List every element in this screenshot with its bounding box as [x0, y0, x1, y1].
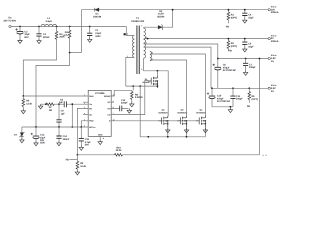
- label Q3: [177, 108, 187, 114]
- svg-text:220nF: 220nF: [63, 138, 70, 141]
- label C10 value: [217, 95, 231, 104]
- label C12 value: [40, 134, 46, 145]
- wire VIN bypass jumper: [71, 104, 73, 127]
- svg-text:4V POSCAP: 4V POSCAP: [223, 69, 237, 72]
- node VIN input terminal: [9, 25, 11, 27]
- node junction C11 top: [232, 87, 234, 89]
- svg-text:PGD: PGD: [89, 120, 94, 123]
- wire secondary tap VOUT4: [144, 47, 211, 88]
- wire snubber left vertical: [80, 10, 82, 53]
- node junction C7 top: [245, 58, 247, 60]
- capacitor C6: [213, 59, 222, 89]
- ground Q2: [166, 128, 170, 133]
- ground C13: [127, 108, 131, 113]
- label T1 pin numbers: [127, 25, 153, 72]
- node junction R1 top: [228, 9, 230, 11]
- wire C10 C11 ground tie: [212, 106, 233, 108]
- label R7 value: [49, 106, 53, 112]
- label C4 value: [248, 14, 254, 20]
- ground C14: [57, 141, 61, 146]
- node primary polarity dot: [124, 33, 126, 35]
- wire Q2 source: [167, 128, 169, 137]
- label C15 value: [85, 138, 92, 147]
- svg-text:B0540W: B0540W: [142, 81, 149, 84]
- node FB stub label: [66, 158, 78, 161]
- svg-text:5: 5: [84, 118, 85, 121]
- capacitor C14: [56, 127, 61, 141]
- ground VIN filter: [38, 104, 42, 109]
- wire VOUT4 rail: [211, 87, 268, 89]
- label rail end marks: [262, 154, 267, 156]
- label C1 value: [95, 29, 102, 38]
- capacitor C15: [79, 127, 84, 146]
- transistor Q4: [196, 116, 206, 128]
- node junction ground tie: [230, 106, 232, 108]
- svg-text:50V: 50V: [85, 144, 90, 147]
- wire primary bottom lead: [126, 58, 135, 87]
- svg-text:4: 4: [84, 112, 85, 115]
- svg-text:12.4k: 12.4k: [80, 165, 86, 168]
- ground C1: [88, 38, 92, 43]
- svg-text:1µF: 1µF: [61, 112, 66, 115]
- svg-text:LTC3806: LTC3806: [95, 92, 105, 95]
- svg-text:PA0810-002: PA0810-002: [131, 20, 144, 23]
- wire Q1 drain stub: [156, 71, 158, 76]
- label C11 value: [236, 95, 243, 101]
- svg-text:220nF: 220nF: [43, 36, 50, 39]
- svg-text:4.7k: 4.7k: [63, 34, 68, 37]
- svg-text:X5R: X5R: [40, 142, 45, 145]
- node junction Q1 drain tap: [157, 70, 159, 72]
- wire sources riser: [139, 86, 141, 137]
- ground C3: [37, 39, 41, 44]
- svg-text:RUN: RUN: [89, 95, 94, 98]
- label D1: [93, 13, 102, 19]
- diode D1: [95, 8, 99, 12]
- node junction INTVCC C14: [58, 126, 60, 128]
- svg-text:Si7850DN: Si7850DN: [177, 111, 187, 114]
- wire secondary tap VOUT3: [144, 44, 218, 59]
- ground C7: [243, 71, 247, 76]
- capacitor C13 series: [120, 106, 122, 112]
- wire VOUT3 rail: [218, 58, 268, 60]
- ground C5: [243, 47, 247, 52]
- resistor R1: [227, 10, 230, 24]
- svg-text:1N4148: 1N4148: [93, 16, 102, 19]
- wire sources bottom rail: [140, 136, 205, 138]
- wire top clamp rail: [81, 9, 268, 11]
- wire R4 node to INTVCC rail: [36, 53, 70, 127]
- node junction C9 top: [58, 103, 60, 105]
- label R9 value: [80, 162, 86, 168]
- wire VIN rail: [11, 26, 126, 28]
- node junction R2 top: [228, 38, 230, 40]
- ground C12: [34, 141, 38, 146]
- label VOUT2: [271, 34, 279, 43]
- svg-text:100V: 100V: [95, 35, 101, 38]
- transistor Q1 main switch: [148, 76, 158, 88]
- transformer T1 secondary winding 2: [150, 51, 152, 61]
- svg-text:9: 9: [113, 100, 114, 103]
- capacitor C9: [56, 104, 61, 127]
- ground Q4: [203, 128, 207, 133]
- svg-text:FB: FB: [247, 105, 250, 108]
- label U1 right pin names: [104, 95, 111, 123]
- wire secondary tap VOUT2: [144, 38, 269, 40]
- label VOUT3: [271, 54, 277, 63]
- wire Q1 source to sense node: [156, 86, 158, 88]
- node junction R7 left: [45, 103, 47, 105]
- svg-text:3.3µH: 3.3µH: [46, 20, 53, 23]
- node VOUT2 terminal: [268, 38, 270, 40]
- node junction R3: [56, 26, 58, 28]
- svg-text:25V TO 60V: 25V TO 60V: [3, 20, 16, 23]
- capacitor C10: [207, 88, 216, 107]
- svg-text:0.025Ω: 0.025Ω: [135, 96, 143, 99]
- capacitor C3: [36, 27, 41, 39]
- node junction R4: [69, 26, 71, 28]
- label C14 value: [63, 135, 70, 141]
- svg-text:10µF: 10µF: [248, 16, 254, 19]
- wire RUN rail: [23, 95, 88, 97]
- node junction C4 top: [244, 9, 246, 11]
- label T1: [131, 17, 144, 23]
- label C9 value: [61, 110, 66, 116]
- label Q4: [196, 108, 206, 114]
- ground C4: [243, 18, 247, 23]
- svg-text:FB: FB: [66, 158, 69, 161]
- label C5 value: [248, 43, 254, 49]
- node VOUT4 terminal: [268, 87, 270, 89]
- wire U1 PGD pin to INTVCC rail: [81, 121, 88, 127]
- IC U1 LTC3806 box: [88, 90, 111, 136]
- node junction INTVCC R4: [35, 126, 37, 128]
- svg-text:20.0k: 20.0k: [116, 149, 122, 152]
- node junction jumper top: [71, 103, 73, 105]
- label U1 pin numbers: [84, 94, 114, 141]
- svg-text:BZ504: BZ504: [157, 16, 165, 19]
- svg-text:400mA: 400mA: [271, 11, 279, 14]
- resistor R2: [227, 39, 230, 51]
- resistor R6: [248, 88, 251, 103]
- label R5 value: [26, 100, 32, 106]
- svg-text:10µF: 10µF: [248, 45, 254, 48]
- wire VIN filter rail: [43, 103, 89, 105]
- label L1 value: [46, 17, 53, 23]
- wire FB pin to divider: [77, 108, 88, 154]
- node junction source rail a: [147, 136, 149, 138]
- svg-text:4: 4: [141, 68, 142, 71]
- resistor R4: [68, 27, 71, 53]
- wire G gate rail: [111, 120, 199, 122]
- label C8 value: [59, 98, 64, 104]
- label R10 value: [116, 146, 122, 152]
- node junction source rail c: [186, 136, 188, 138]
- capacitor C5: [242, 39, 247, 48]
- resistor R3: [55, 27, 58, 42]
- svg-text:FB: FB: [229, 50, 232, 53]
- label VOUT4: [271, 84, 277, 93]
- node junction C1: [89, 26, 91, 28]
- svg-text:Si7850DN: Si7850DN: [158, 111, 168, 114]
- ground D5: [20, 138, 24, 143]
- label C7 value: [249, 63, 256, 69]
- node junction jumper bottom: [71, 126, 73, 128]
- svg-text:4V POSCAP: 4V POSCAP: [217, 100, 231, 103]
- capacitor C7: [243, 59, 248, 71]
- label R3 value: [59, 33, 65, 39]
- label C3 value: [43, 33, 50, 39]
- capacitor C8 series: [64, 101, 66, 107]
- node junction C10 top: [211, 87, 213, 89]
- resistor R5: [22, 96, 25, 109]
- inductor L1: [41, 24, 57, 26]
- wire VOUT3 sense riser: [259, 59, 261, 155]
- wire FB bottom rail: [77, 154, 259, 156]
- ground R9: [75, 170, 79, 175]
- label R8 value: [135, 93, 143, 99]
- node junction R6 top: [248, 87, 250, 89]
- node junction VOUT3 riser: [259, 58, 261, 60]
- label VOUT1: [271, 5, 279, 14]
- ground C11 tie: [228, 108, 232, 113]
- node junction R4 bottom: [69, 52, 71, 54]
- svg-text:1M: 1M: [49, 109, 52, 112]
- node VOUT3 terminal: [268, 57, 270, 59]
- ground C2: [18, 39, 22, 44]
- svg-text:Si7850DN: Si7850DN: [196, 111, 206, 114]
- ground C15: [79, 146, 83, 151]
- wire INTVCC rail: [22, 126, 88, 128]
- svg-text:100µF: 100µF: [249, 66, 256, 69]
- svg-text:FB: FB: [226, 25, 229, 28]
- node junction sources riser: [139, 85, 141, 87]
- resistor R9: [76, 155, 79, 170]
- label R4 value: [63, 31, 68, 37]
- svg-text:CG: CG: [107, 114, 110, 117]
- label U1 left pin names: [89, 95, 96, 129]
- svg-text:2A: 2A: [271, 90, 274, 93]
- capacitor C1 snubber: [87, 27, 92, 38]
- label Q1 D4: [142, 78, 149, 84]
- resistor R8 sense: [111, 90, 133, 102]
- diode D5: [19, 127, 25, 138]
- ground R5: [21, 109, 25, 114]
- ground R8: [130, 102, 134, 107]
- node junction Q1 source: [157, 85, 159, 87]
- capacitor C4: [242, 10, 247, 19]
- wire R3 node down to RUN: [23, 41, 56, 96]
- svg-text:7: 7: [141, 25, 142, 28]
- node VOUT1 terminal: [268, 9, 270, 11]
- label R1: [231, 14, 238, 20]
- svg-text:10: 10: [113, 94, 115, 97]
- svg-text:GND: GND: [98, 134, 103, 137]
- svg-text:80V: 80V: [24, 36, 29, 39]
- svg-text:330pF: 330pF: [121, 102, 128, 105]
- svg-text:400mA: 400mA: [271, 40, 279, 43]
- label R2: [231, 42, 238, 48]
- label C13 value: [121, 99, 128, 105]
- svg-text:(OPT): (OPT): [231, 16, 238, 19]
- node junction RUN divider: [22, 95, 24, 97]
- svg-text:SENSE: SENSE: [104, 95, 111, 98]
- wire snubber bottom: [70, 52, 82, 54]
- transformer T1 core: [137, 26, 139, 75]
- wire ITH pin network: [111, 107, 128, 109]
- svg-text:11: 11: [103, 137, 105, 140]
- transformer T1 primary winding: [133, 36, 135, 58]
- wire secondary1 bottom to Q2 drain: [144, 58, 169, 116]
- resistor R10: [115, 154, 123, 157]
- node junction FB divider: [77, 154, 79, 156]
- zener D2: [144, 10, 173, 30]
- transistor Q2: [158, 116, 168, 128]
- label R6: [252, 95, 259, 101]
- svg-text:(OPT): (OPT): [231, 45, 238, 48]
- label C6 value: [223, 64, 237, 73]
- wire secondary2 top tap to Q4 drain: [150, 54, 206, 116]
- wire secondary2 bottom tap to Q3 drain: [150, 60, 187, 116]
- transformer T1 secondary winding 1: [144, 28, 146, 58]
- svg-text:1A: 1A: [271, 60, 274, 63]
- wire R8 stub: [132, 86, 134, 90]
- node junction source rail b: [167, 136, 169, 138]
- wire U1 NC stub: [83, 114, 88, 116]
- capacitor C12: [31, 127, 40, 141]
- svg-text:2: 2: [127, 32, 128, 35]
- node junction sense R8: [132, 85, 134, 87]
- resistor R7: [46, 103, 54, 106]
- svg-text:13.4k: 13.4k: [26, 103, 32, 106]
- transistor Q3: [177, 116, 187, 128]
- ground U1 GND pin: [98, 136, 102, 144]
- node junction tap VOUT2: [147, 38, 149, 40]
- wire sense node rail: [126, 85, 158, 87]
- svg-text:1: 1: [127, 55, 128, 58]
- ground Q3: [184, 128, 188, 133]
- wire CG pin to Q1 gate: [111, 81, 148, 115]
- node junction C5 top: [244, 38, 246, 40]
- svg-text:(OPT): (OPT): [252, 98, 259, 101]
- node junction D2 top rail: [172, 9, 174, 11]
- label D2: [157, 10, 165, 19]
- capacitor C11: [230, 88, 235, 107]
- wire Q3 source: [186, 128, 188, 137]
- wire secondary1 top lead pin7: [143, 26, 145, 29]
- capacitor C2: [15, 27, 23, 39]
- svg-text:100µF: 100µF: [236, 98, 243, 101]
- label Q2: [158, 108, 168, 114]
- node junction C6 top: [217, 58, 219, 60]
- node junction C2: [19, 26, 21, 28]
- label C2 value: [24, 30, 30, 39]
- node junction C3: [38, 26, 40, 28]
- wire primary top lead: [126, 27, 134, 36]
- wire U1 NC right stub: [83, 101, 114, 103]
- wire Q4 source: [204, 128, 206, 137]
- node junction INTVCC C15: [80, 126, 82, 128]
